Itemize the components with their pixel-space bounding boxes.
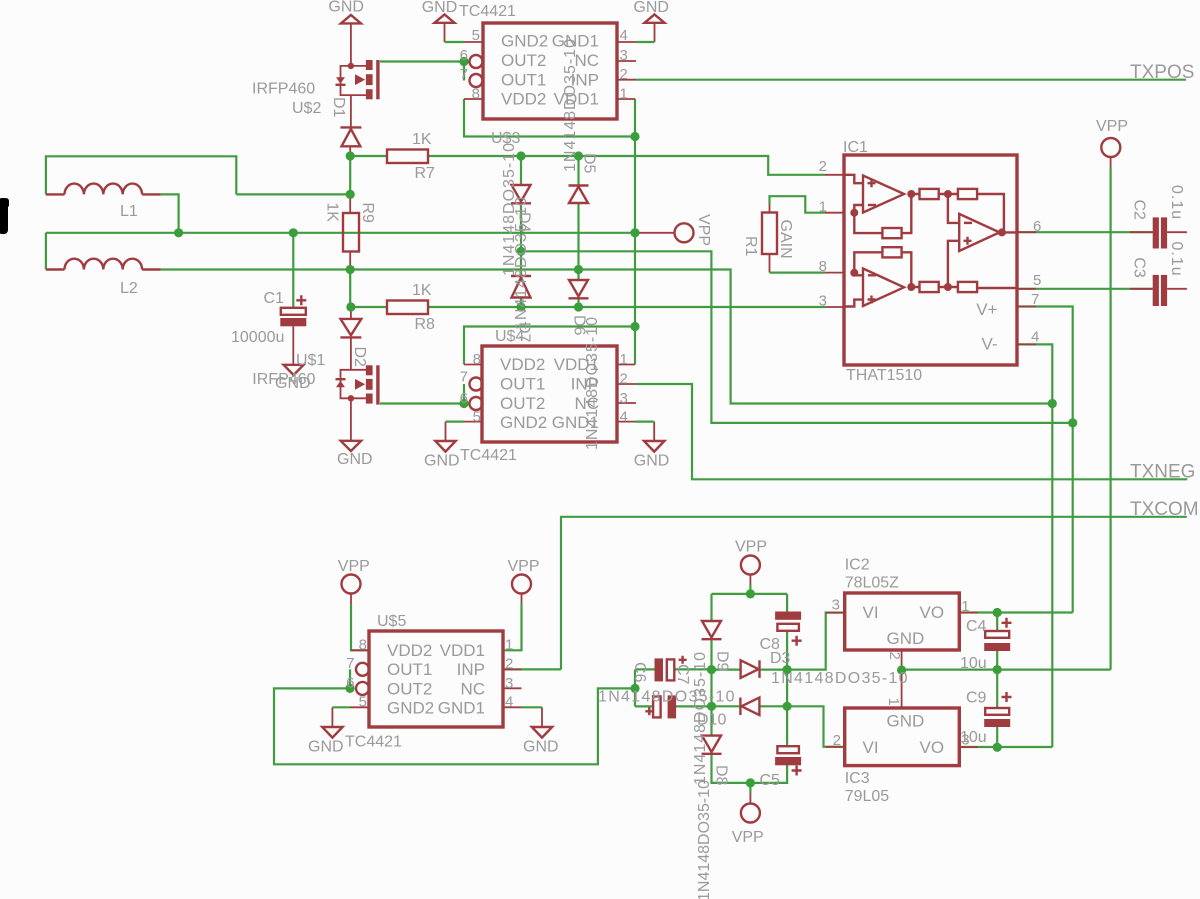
svg-text:3: 3 <box>819 293 827 310</box>
svg-text:78L05Z: 78L05Z <box>845 575 899 592</box>
svg-text:1N4148DO35-10: 1N4148DO35-10 <box>696 780 713 899</box>
svg-text:OUT1: OUT1 <box>501 70 546 89</box>
svg-text:VPP: VPP <box>695 214 712 246</box>
svg-text:7: 7 <box>1031 291 1039 308</box>
svg-text:6: 6 <box>346 675 354 692</box>
svg-text:C1: C1 <box>264 290 285 307</box>
svg-text:L1: L1 <box>120 203 138 220</box>
svg-text:1K: 1K <box>412 131 432 148</box>
svg-text:1: 1 <box>819 199 827 216</box>
svg-text:GND: GND <box>328 0 364 16</box>
svg-text:5: 5 <box>1033 272 1041 289</box>
svg-text:C3: C3 <box>1131 257 1148 278</box>
svg-text:TXPOS: TXPOS <box>1130 62 1194 83</box>
svg-text:D10: D10 <box>697 712 726 729</box>
svg-text:4: 4 <box>620 27 628 44</box>
svg-text:1: 1 <box>961 598 969 615</box>
svg-text:10000u: 10000u <box>231 329 284 346</box>
svg-text:VDD2: VDD2 <box>501 90 546 109</box>
svg-text:GND: GND <box>308 739 344 756</box>
svg-text:GAIN: GAIN <box>777 220 794 259</box>
svg-text:1K: 1K <box>324 202 341 222</box>
svg-text:GND: GND <box>424 453 460 470</box>
svg-text:OUT2: OUT2 <box>501 51 546 70</box>
svg-text:U$2: U$2 <box>292 100 321 117</box>
svg-text:OUT1: OUT1 <box>500 375 545 394</box>
svg-text:VPP: VPP <box>508 558 540 575</box>
svg-text:2: 2 <box>620 66 628 83</box>
svg-text:2: 2 <box>819 158 827 175</box>
svg-text:R1: R1 <box>742 236 759 257</box>
svg-text:GND: GND <box>422 0 458 16</box>
svg-text:R7: R7 <box>415 165 436 182</box>
svg-text:1N4148DO35-10: 1N4148DO35-10 <box>771 670 909 687</box>
svg-text:0.1u: 0.1u <box>1168 242 1185 277</box>
svg-text:VI: VI <box>863 738 879 757</box>
svg-text:1N4148DO35-10: 1N4148DO35-10 <box>562 38 579 172</box>
svg-text:INP: INP <box>457 660 485 679</box>
svg-text:7: 7 <box>346 655 354 672</box>
svg-text:GND: GND <box>887 712 925 731</box>
svg-text:OUT2: OUT2 <box>500 394 545 413</box>
svg-text:VO: VO <box>920 603 945 622</box>
svg-text:3: 3 <box>505 675 513 692</box>
svg-text:1N4148DO35-10: 1N4148DO35-10 <box>513 196 530 330</box>
svg-text:3: 3 <box>832 597 840 614</box>
svg-text:NC: NC <box>460 679 485 698</box>
svg-text:VPP: VPP <box>735 539 767 556</box>
svg-text:4: 4 <box>505 694 513 711</box>
svg-text:3: 3 <box>620 390 628 407</box>
svg-text:GND2: GND2 <box>387 699 434 718</box>
svg-text:THAT1510: THAT1510 <box>846 367 922 384</box>
svg-text:V-: V- <box>981 335 997 354</box>
svg-text:C6: C6 <box>631 662 648 683</box>
svg-text:TXCOMP: TXCOMP <box>1130 499 1200 520</box>
svg-text:7: 7 <box>460 369 468 386</box>
svg-text:R9: R9 <box>359 202 376 223</box>
svg-text:2: 2 <box>505 656 513 673</box>
svg-text:R8: R8 <box>415 316 436 333</box>
svg-text:GND1: GND1 <box>438 699 485 718</box>
svg-text:6: 6 <box>460 47 468 64</box>
svg-text:IC2: IC2 <box>845 557 870 574</box>
svg-text:1N4148DO35-10: 1N4148DO35-10 <box>584 316 601 450</box>
svg-text:5: 5 <box>472 27 480 44</box>
svg-text:U$5: U$5 <box>377 613 406 630</box>
svg-text:VO: VO <box>920 738 945 757</box>
svg-text:VPP: VPP <box>732 829 764 846</box>
svg-text:C8: C8 <box>760 636 781 653</box>
svg-text:GND: GND <box>523 739 559 756</box>
svg-text:IRFP460: IRFP460 <box>252 81 315 98</box>
svg-text:IC1: IC1 <box>843 139 868 156</box>
svg-text:8: 8 <box>473 351 481 368</box>
svg-text:IC3: IC3 <box>845 770 870 787</box>
svg-text:D2: D2 <box>351 347 368 368</box>
svg-text:6: 6 <box>1033 218 1041 235</box>
svg-text:L2: L2 <box>120 280 138 297</box>
svg-text:TC4421: TC4421 <box>459 3 516 20</box>
svg-text:GND2: GND2 <box>501 32 548 51</box>
svg-text:VPP: VPP <box>338 558 370 575</box>
svg-text:5: 5 <box>359 694 367 711</box>
svg-text:U$1: U$1 <box>296 352 325 369</box>
svg-text:D1: D1 <box>330 97 347 118</box>
svg-text:GND: GND <box>634 453 670 470</box>
svg-text:8: 8 <box>359 637 367 654</box>
svg-text:C9: C9 <box>966 690 987 707</box>
svg-text:5: 5 <box>473 409 481 426</box>
svg-text:C7: C7 <box>674 664 691 685</box>
svg-text:4: 4 <box>1031 329 1039 346</box>
svg-text:GND: GND <box>887 629 925 648</box>
svg-text:10u: 10u <box>960 655 987 672</box>
svg-text:7: 7 <box>460 66 468 83</box>
svg-text:VDD2: VDD2 <box>387 641 432 660</box>
svg-text:D8: D8 <box>713 765 730 786</box>
svg-text:1: 1 <box>620 351 628 368</box>
svg-text:TC4421: TC4421 <box>460 447 517 464</box>
svg-text:D9: D9 <box>714 651 731 672</box>
svg-text:OUT1: OUT1 <box>387 660 432 679</box>
svg-text:V+: V+ <box>976 300 997 319</box>
svg-text:OUT2: OUT2 <box>387 679 432 698</box>
svg-text:1K: 1K <box>412 282 432 299</box>
svg-text:1N4148DO35-10: 1N4148DO35-10 <box>598 689 736 706</box>
svg-text:VPP: VPP <box>1096 118 1128 135</box>
svg-text:1: 1 <box>620 86 628 103</box>
svg-text:4: 4 <box>620 409 628 426</box>
svg-text:2: 2 <box>620 371 628 388</box>
svg-text:TXNEG: TXNEG <box>1130 462 1195 483</box>
svg-text:C4: C4 <box>966 618 987 635</box>
svg-text:GND2: GND2 <box>500 413 547 432</box>
svg-text:VDD1: VDD1 <box>440 641 485 660</box>
svg-text:1: 1 <box>505 637 513 654</box>
svg-text:10u: 10u <box>960 729 987 746</box>
svg-text:VI: VI <box>863 603 879 622</box>
svg-text:GND: GND <box>337 451 373 468</box>
svg-text:GND: GND <box>275 375 311 392</box>
svg-text:8: 8 <box>472 86 480 103</box>
svg-text:1: 1 <box>885 698 902 706</box>
svg-text:3: 3 <box>620 47 628 64</box>
svg-text:TC4421: TC4421 <box>345 734 402 751</box>
svg-text:GND: GND <box>633 0 669 16</box>
svg-text:6: 6 <box>460 390 468 407</box>
svg-text:0.1u: 0.1u <box>1168 185 1185 220</box>
svg-text:2: 2 <box>886 652 903 660</box>
svg-text:C5: C5 <box>760 772 781 789</box>
svg-text:8: 8 <box>819 258 827 275</box>
svg-text:2: 2 <box>833 732 841 749</box>
svg-text:C2: C2 <box>1131 200 1148 221</box>
svg-text:79L05: 79L05 <box>845 788 890 805</box>
svg-text:VDD2: VDD2 <box>500 355 545 374</box>
svg-text:D5: D5 <box>581 153 598 174</box>
